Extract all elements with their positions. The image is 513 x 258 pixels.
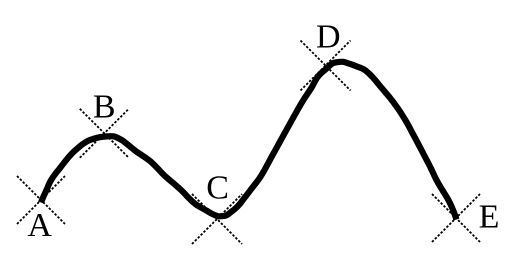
svg-text:B: B	[93, 88, 116, 125]
cross at B	[80, 109, 129, 158]
svg-text:D: D	[316, 19, 341, 56]
svg-text:C: C	[206, 170, 229, 207]
svg-text:A: A	[27, 207, 52, 244]
curve: wavy function through points A,B,C,D,E	[41, 62, 457, 220]
cross at E	[432, 194, 480, 242]
cross at D	[301, 41, 351, 91]
cross at A	[17, 176, 65, 224]
svg-text:E: E	[479, 199, 500, 236]
cross at C	[192, 194, 242, 244]
